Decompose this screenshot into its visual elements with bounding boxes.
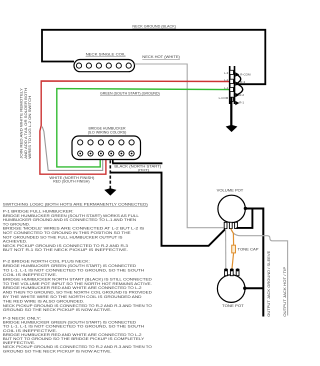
svg-text:OUTPUT JACK GROUND / SLEEVE: OUTPUT JACK GROUND / SLEEVE [267, 250, 271, 317]
switch right lug R-1 [235, 101, 239, 105]
svg-text:L-2: L-2 [224, 78, 229, 82]
ground symbol (bridge pickup) [104, 188, 116, 195]
wire bridge ground dashed to ground arrow [109, 160, 111, 189]
svg-text:NOT CONNECTED TO GROUND IN THI: NOT CONNECTED TO GROUND IN THIS POSITION… [3, 231, 132, 235]
svg-text:TONE CAP: TONE CAP [238, 247, 260, 251]
svg-text:THE RED WIRE IS ALSO GROUNDED.: THE RED WIRE IS ALSO GROUNDED. [3, 299, 85, 303]
tone pot lug 1 [225, 269, 228, 275]
pickup bridge humbucker body [72, 136, 141, 160]
node volume casing [244, 207, 247, 210]
switching logic text block [3, 203, 153, 354]
wire red (south finish) from switch L-2 to bridge humbucker [40, 81, 230, 174]
svg-text:AND THEN TO GROUND, SO THE NOR: AND THEN TO GROUND, SO THE NORTH COIL GR… [3, 291, 153, 295]
svg-text:R-2: R-2 [239, 93, 244, 97]
wire volume lug1 to tone lug1 (gray) [225, 229, 227, 269]
svg-text:BRIDGE HUMBUCKER RED AND WHITE: BRIDGE HUMBUCKER RED AND WHITE ARE CONNE… [3, 286, 142, 290]
svg-text:(HOT): (HOT) [138, 168, 149, 172]
green jumper at switch L-1 [230, 90, 235, 92]
switch right lug R-2 [235, 93, 239, 97]
svg-text:OUTPUT JACK HOT / TIP: OUTPUT JACK HOT / TIP [283, 266, 287, 317]
svg-text:BUT NOT R-1 SO THE NECK PICKUP: BUT NOT R-1 SO THE NECK PICKUP IS INEFFE… [3, 248, 128, 252]
svg-text:L-1: L-1 [224, 86, 229, 90]
svg-text:BY THE WHITE WIRE SO THE NORTH: BY THE WHITE WIRE SO THE NORTH COIL IS G… [3, 295, 143, 299]
wire volume casing to lug 3 [237, 209, 253, 228]
wire volume wiper to output jack hot (gray) [231, 229, 288, 316]
svg-text:NECK GROUND (BLACK): NECK GROUND (BLACK) [132, 25, 176, 29]
svg-text:NECK SINGLE COIL: NECK SINGLE COIL [86, 52, 126, 56]
jumper arc R-3 to R-2 [237, 84, 243, 95]
svg-text:BRIDGE 'MODLE' WIRES ARE CONNE: BRIDGE 'MODLE' WIRES ARE CONNECTED AT L-… [3, 227, 146, 231]
switch body bars [229, 66, 231, 104]
wire black (north start)(hot) from bridge humbucker to volume pot lug 1 [112, 160, 114, 164]
svg-text:NECK HOT (WHITE): NECK HOT (WHITE) [142, 55, 180, 59]
volume pot lug 1 [224, 222, 227, 228]
capacitor tone cap [232, 245, 236, 253]
switch right lug R-3 [235, 81, 239, 85]
svg-text:(S.D WIRING COLORS): (S.D WIRING COLORS) [88, 130, 127, 134]
wire neck hot (white) to volume pot lug 1 [135, 64, 224, 228]
pickup neck single coil body [74, 60, 135, 72]
svg-text:L-COM: L-COM [219, 96, 229, 100]
pot tone [217, 275, 245, 303]
svg-text:GROUND SO THE NECK PICKUP IS N: GROUND SO THE NECK PICKUP IS NOW ACTIVE. [3, 349, 112, 353]
ground symbol (switch) [226, 125, 238, 132]
svg-text:TO THE VOLUME POT INPUT SO THE: TO THE VOLUME POT INPUT SO THE NORTH HOT… [3, 282, 152, 286]
switch right lug R-COM [235, 72, 239, 77]
node tone casing [243, 287, 246, 290]
svg-text:R-COM: R-COM [240, 73, 251, 77]
wire white (north finish) joins red remotely [42, 127, 102, 171]
tone pot lug 3 [236, 269, 239, 275]
tone pot lug 2 [230, 269, 233, 275]
svg-text:RED (SOUTH FINISH): RED (SOUTH FINISH) [53, 180, 89, 184]
svg-text:VOLUME POT: VOLUME POT [217, 189, 244, 193]
wire green (south start)(ground) from switch L-1 to bridge humbucker [57, 89, 230, 167]
svg-text:GROUND SO THE NECK PICKUP IS N: GROUND SO THE NECK PICKUP IS NOW ACTIVE. [3, 308, 112, 312]
svg-text:GREEN (SOUTH START) (GROUND): GREEN (SOUTH START) (GROUND) [100, 91, 160, 95]
svg-text:TONE POT: TONE POT [222, 304, 244, 308]
wire orange volume wiper through tone cap to tone lug2 [231, 229, 234, 269]
svg-text:P-2 BRIDGE NORTH COIL PLUS NEC: P-2 BRIDGE NORTH COIL PLUS NECK: [3, 260, 90, 264]
volume pot lug 2 [229, 222, 232, 228]
svg-text:NECK PICKUP GROUND IS CONNECTE: NECK PICKUP GROUND IS CONNECTED TO R-2 A… [3, 304, 153, 308]
switch terminal L-2 [230, 79, 234, 83]
svg-text:BRIDGE HUMBUCKER GREEN (SOUTH: BRIDGE HUMBUCKER GREEN (SOUTH START) IS … [3, 264, 137, 268]
switch terminal L-COM [230, 97, 234, 101]
tone lug terminals [225, 268, 228, 271]
jumper arc R-COM to R-3 [237, 75, 241, 84]
svg-text:BRIDGE HUMBUCKER NORTH START (: BRIDGE HUMBUCKER NORTH START (BLACK) IS … [3, 277, 153, 281]
svg-text:WIRES TO LUG L-2 ON SWITCH: WIRES TO LUG L-2 ON SWITCH [28, 95, 32, 159]
svg-text:COIL IS INEFFECTIVE.: COIL IS INEFFECTIVE. [3, 273, 58, 277]
volume pot lug 3 [235, 222, 238, 228]
wire neck ground (black) from neck pickup left, over the top, down to switch R-3 [42, 30, 265, 84]
svg-text:TO L-1. L-1 IS NOT CONNECTED T: TO L-1. L-1 IS NOT CONNECTED TO GROUND, … [3, 269, 145, 273]
pot volume [218, 195, 245, 222]
red jumper at switch L-2 [230, 82, 235, 84]
svg-text:R-1: R-1 [239, 101, 244, 105]
wire volume casing to output jack ground, down to tone casing [245, 209, 264, 317]
switch terminal L-1 [230, 87, 234, 91]
wire L-COM to ground [230, 98, 232, 127]
svg-text:R-3: R-3 [240, 80, 245, 84]
svg-text:SWITCHING LOGIC (BOTH HOTS ARE: SWITCHING LOGIC (BOTH HOTS ARE PERMANENT… [3, 203, 148, 207]
switch terminal L-3 [230, 70, 234, 74]
svg-text:L-3: L-3 [224, 71, 229, 75]
